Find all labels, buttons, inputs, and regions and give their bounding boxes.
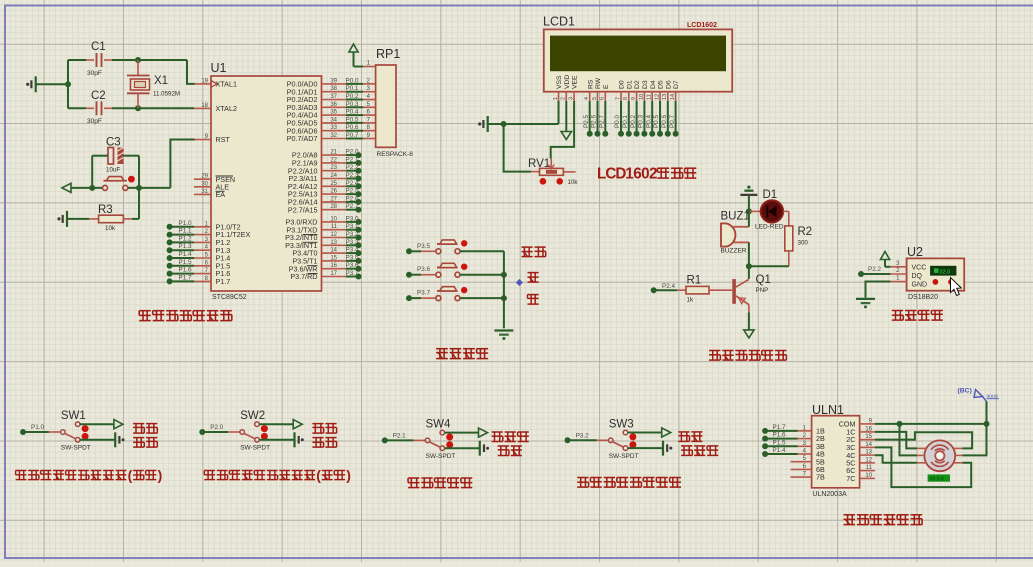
wire — [71, 187, 102, 189]
svg-text:C2: C2 — [91, 90, 106, 102]
node P2.1 — [346, 156, 362, 166]
wire P0.6 — [346, 124, 376, 131]
cursor diamond — [516, 279, 523, 286]
svg-text:SW2: SW2 — [240, 410, 265, 422]
svg-text:P1.3: P1.3 — [179, 243, 192, 250]
wire pin1 — [354, 61, 376, 67]
svg-text:SW4: SW4 — [426, 418, 452, 430]
wire P0.0 — [614, 101, 624, 137]
sensor U2 DS18B20 — [890, 245, 964, 301]
node P2.7 — [346, 203, 362, 213]
node P3.0 — [346, 215, 362, 225]
svg-text:D7: D7 — [673, 80, 680, 89]
svg-text:VDD: VDD — [564, 75, 571, 89]
svg-text:P3.6: P3.6 — [417, 266, 430, 273]
svg-text:P0.3: P0.3 — [638, 115, 645, 128]
resistor pack RP1 RESPACK-8 — [376, 47, 414, 158]
svg-text:P3.3: P3.3 — [346, 239, 359, 246]
ground — [494, 331, 513, 341]
resistor R2 300 — [785, 211, 812, 266]
node P3.5 — [346, 254, 362, 264]
node P1.7 — [762, 424, 798, 434]
svg-text:13: 13 — [330, 240, 337, 246]
node — [897, 421, 903, 427]
wire P0.3 — [638, 101, 648, 137]
svg-text:P0.7: P0.7 — [669, 115, 676, 128]
node P3.1 — [346, 223, 362, 233]
svg-text:10: 10 — [330, 216, 337, 222]
svg-text:XTAL2: XTAL2 — [216, 104, 237, 113]
label set — [522, 247, 546, 257]
svg-text:LCD1602: LCD1602 — [687, 22, 717, 29]
wire P0.5 — [346, 116, 376, 123]
svg-text:30: 30 — [201, 181, 208, 187]
svg-text:SW-SPDT: SW-SPDT — [609, 453, 639, 460]
wire — [748, 312, 750, 329]
push button P3.6 — [406, 263, 504, 277]
svg-text:P1.6: P1.6 — [773, 432, 786, 439]
caption LCD1602 display — [597, 166, 696, 183]
label — [312, 438, 336, 448]
svg-text:P2.6: P2.6 — [591, 115, 598, 128]
wire COM to motor left — [900, 424, 918, 456]
wire motor right to power — [962, 401, 986, 455]
transistor Q1 PNP — [732, 266, 771, 312]
ground — [740, 186, 757, 212]
svg-text:P2.4: P2.4 — [346, 180, 359, 187]
svg-text:P2.7: P2.7 — [599, 115, 606, 128]
power terminal — [479, 428, 488, 437]
svg-text:P0.1: P0.1 — [346, 85, 359, 92]
svg-text:(: ( — [128, 467, 133, 483]
svg-text:P2.5: P2.5 — [346, 188, 359, 195]
node P2.0 — [346, 149, 362, 159]
svg-text:Q1: Q1 — [756, 274, 771, 286]
svg-text:22: 22 — [330, 157, 337, 163]
svg-text:13: 13 — [865, 450, 872, 456]
svg-text:SW1: SW1 — [61, 410, 86, 422]
caption independent keys — [436, 349, 488, 359]
resistor R3 10k — [67, 204, 139, 232]
label plus — [528, 273, 539, 283]
svg-text:17: 17 — [330, 271, 337, 277]
node P1.0 — [20, 424, 44, 435]
svg-text:30pF: 30pF — [87, 118, 102, 125]
wire P0.7 — [346, 132, 376, 139]
node — [135, 105, 141, 111]
power terminal — [293, 420, 302, 429]
svg-text:P3.4: P3.4 — [346, 247, 359, 254]
svg-text:7B: 7B — [816, 473, 825, 482]
svg-text:P3.0: P3.0 — [346, 215, 359, 222]
svg-text:P2.0: P2.0 — [210, 424, 223, 431]
caption temperature module — [892, 311, 943, 321]
svg-text:12: 12 — [654, 94, 660, 100]
caption sound light alarm — [709, 351, 786, 361]
label — [678, 432, 702, 442]
svg-text:11: 11 — [866, 465, 873, 471]
label — [492, 432, 529, 442]
svg-text:27: 27 — [330, 196, 337, 202]
svg-text:D3: D3 — [642, 80, 649, 89]
wire — [187, 60, 195, 84]
svg-text:24: 24 — [330, 173, 337, 179]
svg-text:23: 23 — [330, 165, 337, 171]
svg-text:P0.6: P0.6 — [346, 124, 359, 131]
wire 1C — [875, 432, 917, 449]
wire — [138, 156, 140, 188]
push button RESET — [103, 176, 135, 191]
svg-text:ULN2003A: ULN2003A — [812, 491, 847, 498]
node P2.2 — [346, 164, 362, 174]
node P1.7 — [167, 274, 194, 284]
caption separated infrared beam — [577, 478, 681, 488]
svg-text:4: 4 — [584, 97, 590, 100]
wire — [36, 83, 68, 85]
svg-text:34: 34 — [330, 117, 337, 123]
mouse cursor — [951, 278, 962, 296]
push button P3.7 — [406, 287, 504, 301]
wire — [80, 439, 115, 441]
svg-text:29: 29 — [201, 174, 208, 180]
svg-text:P0.2: P0.2 — [630, 115, 637, 128]
svg-text:VEE: VEE — [572, 75, 579, 89]
svg-text:P3.6: P3.6 — [346, 262, 359, 269]
svg-text:14: 14 — [330, 248, 337, 254]
wire P0.6 — [661, 101, 671, 137]
svg-text:VSS: VSS — [556, 75, 563, 89]
ground — [856, 299, 875, 309]
svg-text:SW-SPDT: SW-SPDT — [61, 445, 91, 452]
svg-text:P0.2: P0.2 — [346, 93, 359, 100]
wire — [112, 59, 187, 61]
svg-text:10: 10 — [865, 473, 872, 479]
wire — [112, 107, 194, 109]
svg-text:18: 18 — [201, 103, 208, 109]
wire — [259, 439, 294, 441]
terminal arrow — [62, 183, 71, 192]
node P1.2 — [167, 235, 194, 245]
svg-text:DQ: DQ — [912, 273, 923, 280]
wire — [445, 432, 479, 434]
node — [501, 121, 507, 127]
wire P2.5 — [583, 101, 593, 137]
svg-text:35: 35 — [330, 110, 337, 116]
ground — [26, 76, 36, 92]
display LCD1 LCD1602 — [543, 15, 732, 102]
svg-text:D2: D2 — [634, 80, 641, 89]
crystal X1 11.0592M — [127, 60, 180, 108]
wire P0.3 — [346, 101, 376, 108]
label minus — [528, 295, 539, 305]
svg-text:P2.2: P2.2 — [346, 164, 359, 171]
svg-text:RP1: RP1 — [376, 47, 400, 61]
svg-text:P2.6: P2.6 — [346, 195, 359, 202]
wire 2C — [875, 432, 972, 448]
node P2.3 — [346, 172, 362, 182]
svg-text:P1.7: P1.7 — [179, 274, 192, 281]
svg-text:BUZ1: BUZ1 — [721, 211, 750, 223]
svg-text:1: 1 — [553, 97, 559, 100]
node — [501, 295, 507, 301]
svg-text:LCD1: LCD1 — [543, 15, 575, 29]
svg-text:P2.1: P2.1 — [393, 432, 406, 439]
svg-text:2: 2 — [561, 97, 567, 100]
svg-text:P1.5: P1.5 — [179, 259, 192, 266]
svg-text:31: 31 — [201, 189, 208, 195]
wire P0.4 — [645, 101, 655, 137]
wire — [170, 140, 195, 188]
wire P0.5 — [653, 101, 663, 137]
power terminal — [880, 252, 890, 267]
svg-text:VCC: VCC — [912, 265, 927, 272]
svg-text:10: 10 — [639, 94, 645, 100]
svg-text:P2.4: P2.4 — [662, 283, 675, 290]
wire VSS — [488, 101, 559, 124]
svg-text:D1: D1 — [626, 80, 633, 89]
svg-text:30pF: 30pF — [87, 70, 102, 77]
wire — [749, 265, 789, 267]
svg-text:X1: X1 — [154, 75, 168, 87]
svg-text:BUZZER: BUZZER — [721, 248, 747, 255]
wire — [445, 447, 480, 449]
svg-text:11: 11 — [647, 94, 653, 100]
svg-text:32.0: 32.0 — [940, 269, 951, 275]
svg-text:P3.5: P3.5 — [417, 243, 430, 250]
switch SW3 SW-SPDT — [570, 418, 639, 460]
svg-text:P1.6: P1.6 — [179, 267, 192, 274]
label — [133, 438, 157, 448]
svg-text:P2.7: P2.7 — [346, 203, 359, 210]
svg-text:P3.7: P3.7 — [417, 290, 430, 297]
switch SW4 SW-SPDT — [387, 418, 456, 460]
power terminal BC — [958, 388, 1000, 402]
node — [746, 208, 752, 214]
svg-text:5: 5 — [592, 97, 598, 100]
svg-text:13: 13 — [662, 94, 668, 100]
svg-text:SW-SPDT: SW-SPDT — [426, 453, 456, 460]
svg-text:P1.0: P1.0 — [31, 424, 44, 431]
svg-text:P1.4: P1.4 — [179, 251, 192, 258]
node — [136, 185, 142, 191]
wire VEE — [551, 101, 574, 159]
svg-text:19: 19 — [201, 78, 208, 84]
wire P0.2 — [346, 93, 376, 100]
driver ULN1 ULN2003A — [791, 403, 875, 498]
svg-text:P1.1: P1.1 — [179, 228, 192, 235]
wire P2.7 — [599, 101, 609, 137]
node P3.7 — [346, 270, 362, 280]
wire — [628, 447, 663, 449]
potentiometer RV1 10k — [528, 158, 578, 186]
svg-text:37: 37 — [330, 94, 337, 100]
capacitor C1 — [68, 41, 112, 77]
node P2.2 — [858, 266, 890, 277]
svg-text:14: 14 — [865, 442, 872, 448]
wire GND — [866, 282, 891, 298]
svg-text:LED-RED: LED-RED — [755, 224, 784, 231]
svg-text:(: ( — [316, 467, 321, 483]
wire 4C — [875, 455, 883, 463]
node P2.6 — [346, 195, 362, 205]
wire — [628, 432, 662, 434]
node P3.2 — [346, 231, 362, 241]
label — [312, 424, 336, 434]
node P3.6 — [346, 262, 362, 272]
svg-text:33: 33 — [330, 125, 337, 131]
svg-text:7C: 7C — [846, 474, 855, 483]
svg-text:R2: R2 — [798, 226, 813, 238]
svg-text:300: 300 — [798, 240, 809, 247]
svg-text:P2.3: P2.3 — [346, 172, 359, 179]
svg-text:D4: D4 — [650, 80, 657, 89]
capacitor C2 — [68, 90, 112, 125]
caption four phase stepper motor — [844, 515, 923, 525]
node P1.0 — [167, 220, 194, 230]
svg-text:36: 36 — [330, 102, 337, 108]
svg-text:21: 21 — [330, 150, 337, 156]
svg-text:P1.7: P1.7 — [773, 424, 786, 431]
switch SW1 SW-SPDT — [22, 410, 91, 452]
wire P0.1 — [346, 85, 376, 92]
svg-text:RW: RW — [595, 77, 602, 89]
ground — [478, 116, 488, 132]
svg-text:P2.0: P2.0 — [346, 149, 359, 156]
wire P0.4 — [346, 109, 376, 116]
svg-text:P0.5: P0.5 — [346, 116, 359, 123]
svg-text:P0.7/AD7: P0.7/AD7 — [287, 134, 318, 143]
svg-text:10uF: 10uF — [106, 167, 120, 174]
node P2.1 — [382, 432, 406, 443]
svg-text:(BC): (BC) — [958, 388, 972, 395]
svg-text:C1: C1 — [91, 41, 106, 53]
svg-text:11: 11 — [331, 224, 338, 230]
node P3.4 — [346, 247, 362, 257]
svg-text:16: 16 — [330, 263, 337, 269]
svg-text:28: 28 — [330, 204, 337, 210]
node — [501, 272, 507, 278]
node — [65, 81, 71, 87]
svg-text:RESPACK-8: RESPACK-8 — [377, 151, 414, 158]
svg-text:P0.4: P0.4 — [645, 115, 652, 128]
wire COM — [875, 423, 987, 425]
svg-text:32: 32 — [330, 133, 337, 139]
svg-text:R1: R1 — [687, 275, 702, 287]
resistor R1 1k — [651, 275, 733, 304]
svg-text:P0.1: P0.1 — [622, 115, 629, 128]
node P3.3 — [346, 239, 362, 249]
switch SW2 SW-SPDT — [201, 410, 270, 452]
terminal VDD down arrow — [561, 101, 571, 140]
ground — [115, 432, 124, 447]
svg-text:12: 12 — [865, 457, 872, 463]
motor display — [928, 474, 950, 482]
node — [984, 421, 990, 427]
node P2.0 — [199, 424, 223, 435]
wire — [138, 188, 140, 219]
wire 3C — [875, 447, 971, 487]
node P1.4 — [167, 251, 194, 261]
power terminal — [114, 420, 123, 429]
svg-text:#8.8.8: #8.8.8 — [930, 476, 945, 482]
svg-text:P3.2: P3.2 — [346, 231, 359, 238]
svg-text:D6: D6 — [665, 80, 672, 89]
svg-text:P1.7: P1.7 — [216, 277, 231, 286]
svg-text:SW-SPDT: SW-SPDT — [240, 445, 270, 452]
svg-text:P2.1: P2.1 — [346, 156, 359, 163]
label — [498, 446, 522, 456]
wire to RV1 — [504, 124, 531, 172]
svg-text:38: 38 — [330, 86, 337, 92]
svg-text:P1.4: P1.4 — [773, 447, 786, 454]
svg-text:RS: RS — [587, 79, 594, 89]
svg-text:15: 15 — [865, 434, 872, 440]
LED D1 LED-RED — [749, 189, 789, 231]
svg-text:8: 8 — [623, 97, 629, 100]
caption PIR module external — [16, 467, 163, 483]
wire P0.2 — [630, 101, 640, 137]
svg-text:P2.2: P2.2 — [868, 266, 881, 273]
wire — [91, 156, 93, 188]
ground — [663, 441, 672, 456]
wire — [503, 251, 505, 328]
node — [135, 57, 141, 63]
svg-text:P0.6: P0.6 — [661, 115, 668, 128]
svg-text:P1.2: P1.2 — [179, 235, 192, 242]
wire — [128, 187, 170, 189]
svg-text:GND: GND — [912, 281, 928, 288]
wire — [67, 60, 69, 108]
svg-text:P3.7: P3.7 — [346, 270, 359, 277]
svg-text:E: E — [603, 84, 610, 89]
svg-text:DS18B20: DS18B20 — [908, 294, 938, 301]
svg-text:RST: RST — [216, 135, 231, 144]
caption infrared obstacle avoidance — [408, 478, 472, 488]
label — [133, 424, 157, 434]
svg-text:P0.7: P0.7 — [346, 132, 359, 139]
svg-text:P0.0: P0.0 — [614, 115, 621, 128]
svg-text:39: 39 — [330, 78, 337, 84]
svg-text:10k: 10k — [105, 225, 116, 232]
svg-text:P3.5: P3.5 — [346, 254, 359, 261]
motor stepper — [917, 440, 962, 471]
wire — [259, 423, 293, 425]
op-amp U1 STC89C52 microcontroller — [194, 61, 346, 301]
svg-text:P2.5: P2.5 — [583, 115, 590, 128]
node — [746, 263, 752, 269]
wire P0.1 — [622, 101, 632, 137]
svg-text:P1.0: P1.0 — [179, 220, 192, 227]
svg-text:XTAL1: XTAL1 — [216, 80, 237, 89]
svg-text:D0: D0 — [619, 80, 626, 89]
node P2.5 — [346, 188, 362, 198]
svg-text:P2.7/A15: P2.7/A15 — [288, 205, 318, 214]
svg-text:7: 7 — [615, 97, 621, 100]
wire P0.7 — [669, 101, 679, 137]
node P3.2 — [565, 432, 590, 443]
svg-text:26: 26 — [330, 189, 337, 195]
svg-text:D1: D1 — [763, 189, 778, 201]
svg-text:U1: U1 — [211, 61, 227, 75]
svg-text:P0.0: P0.0 — [346, 77, 359, 84]
svg-text:): ) — [158, 467, 163, 483]
svg-text:R3: R3 — [98, 204, 113, 216]
caption PIR module internal — [204, 467, 351, 483]
svg-text:10k: 10k — [568, 179, 579, 186]
svg-text:U2: U2 — [907, 245, 923, 259]
svg-text:12: 12 — [330, 232, 337, 238]
svg-text:P0.4: P0.4 — [346, 109, 359, 116]
